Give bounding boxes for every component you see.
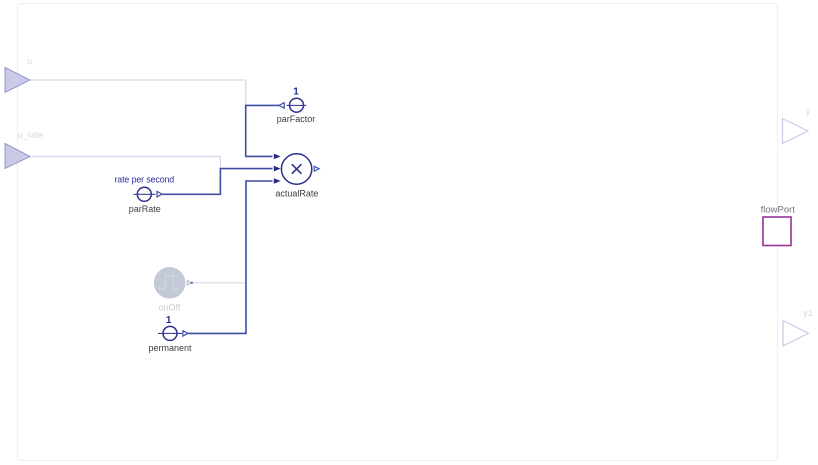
output port y <box>783 106 811 144</box>
svg-text:rate per second: rate per second <box>114 174 174 184</box>
input port u <box>5 56 32 93</box>
input port u_rate <box>5 130 43 169</box>
connector flowPort <box>761 204 796 245</box>
wire parRate to actualRate <box>162 169 273 195</box>
svg-text:1: 1 <box>166 315 172 326</box>
svg-text:permanent: permanent <box>148 343 192 353</box>
svg-text:flowPort: flowPort <box>761 204 796 215</box>
block onOff <box>154 268 192 313</box>
svg-text:parRate: parRate <box>129 204 161 214</box>
output port y1 <box>783 308 813 346</box>
svg-text:parFactor: parFactor <box>277 114 316 124</box>
wire u_rate <box>30 157 220 169</box>
svg-text:y: y <box>806 106 811 116</box>
parameter parFactor <box>277 87 316 124</box>
parameter parRate <box>114 174 174 214</box>
svg-text:u: u <box>27 56 32 66</box>
svg-text:1: 1 <box>293 87 299 98</box>
svg-text:u_rate: u_rate <box>18 130 44 140</box>
wire u <box>30 80 246 105</box>
wire onOff <box>193 282 247 284</box>
svg-text:onOff: onOff <box>159 303 181 313</box>
svg-text:actualRate: actualRate <box>275 189 318 199</box>
parameter permanent <box>148 315 192 353</box>
svg-text:y1: y1 <box>803 308 813 318</box>
wire parFactor to actualRate <box>246 105 279 156</box>
multiplier actualRate <box>274 154 319 199</box>
wire permanent to actualRate <box>188 181 273 333</box>
